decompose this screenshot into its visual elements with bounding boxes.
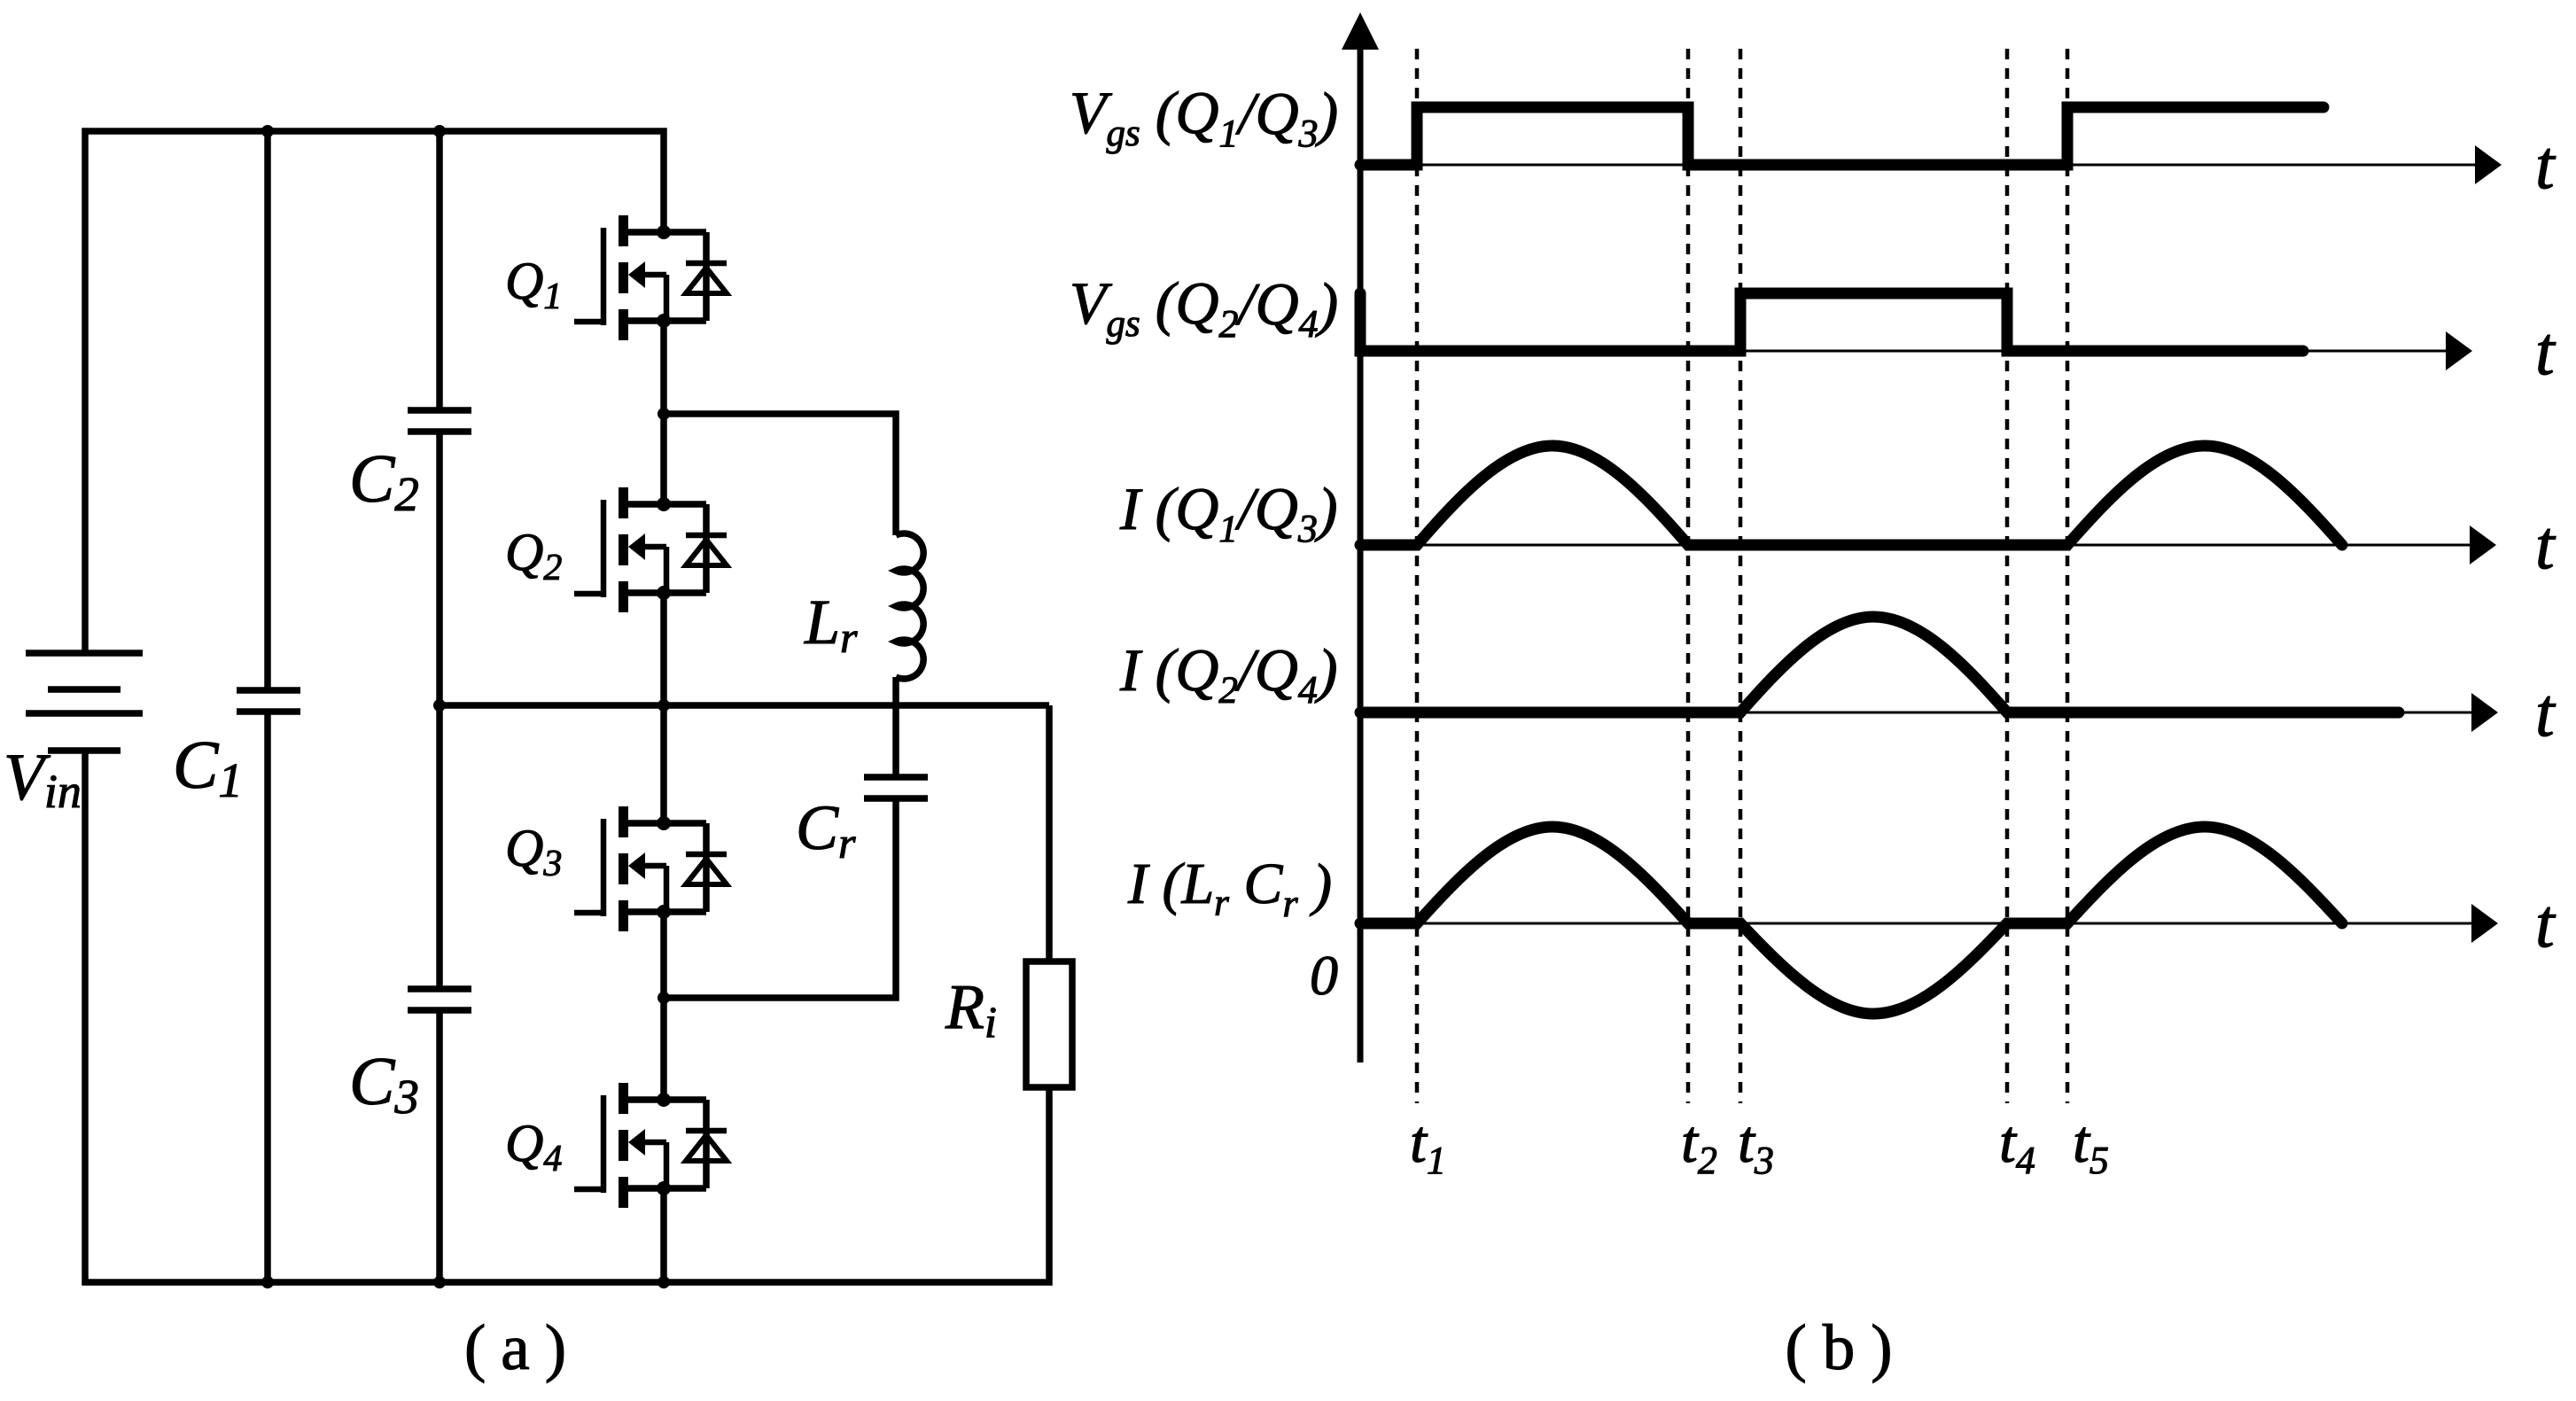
node dot bottom of C1	[261, 1276, 274, 1288]
dashed line t4	[2005, 49, 2010, 1103]
capacitor C1	[237, 690, 300, 712]
battery Vin	[26, 653, 143, 751]
wire top rail (input + to Q1 drain)	[85, 131, 664, 650]
wire C2 column upper	[436, 131, 443, 408]
wire inductor to Cr	[892, 677, 899, 778]
node dot bottom of C3	[433, 1276, 446, 1288]
wire Cr to Q3 source node	[664, 801, 896, 998]
waveform I(Lr Cr)	[1360, 827, 2342, 1014]
wire bottom rail (battery return + to resistor)	[85, 753, 1049, 1282]
axis row I(Q2/Q4)	[1360, 693, 2498, 732]
wire Q2 source through mid rail to Q3 drain	[660, 593, 667, 823]
wire C2 to mid rail	[436, 434, 443, 705]
transistor Q3	[574, 806, 727, 931]
svg-text:t: t	[2535, 673, 2557, 751]
svg-text:(a): (a)	[464, 1311, 581, 1383]
dashed line t1	[1415, 49, 1420, 1103]
svg-text:t: t	[2535, 312, 2557, 389]
node dot mid rail at Q column	[658, 699, 670, 712]
diagram vertical axis	[1342, 12, 1379, 1062]
wire C1 column upper	[264, 131, 271, 688]
resistor Ri	[1026, 961, 1072, 1087]
svg-text:t: t	[2535, 126, 2557, 203]
wire Q3 source to Q4 drain	[660, 912, 667, 1100]
node dot Cr return	[658, 992, 670, 1004]
inductor Lr	[896, 533, 923, 679]
capacitor C2	[408, 410, 471, 432]
node dot top of C1	[261, 125, 274, 137]
axis row I(Lr Cr)	[1360, 904, 2498, 943]
wire C3 to bottom rail	[436, 1013, 443, 1282]
node dot top of C2	[433, 125, 446, 137]
wire Q4 source to bottom rail	[660, 1188, 667, 1282]
dashed line t5	[2066, 49, 2070, 1103]
wire mid rail to resistor	[1046, 705, 1053, 961]
svg-text:(b): (b)	[1785, 1311, 1908, 1383]
node dot mid rail left	[433, 699, 446, 712]
transistor Q2	[574, 487, 727, 612]
wire mid rail	[440, 702, 1049, 709]
wire C1 column lower	[264, 714, 271, 1282]
transistor Q4	[574, 1083, 727, 1208]
node dot bottom of Q4	[658, 1276, 670, 1288]
wire C3 column upper	[436, 705, 443, 986]
wire node A to inductor	[664, 414, 896, 535]
svg-text:t: t	[2535, 884, 2557, 961]
svg-text:t: t	[2535, 506, 2557, 583]
waveform I(Q2/Q4)	[1360, 617, 2399, 712]
svg-text:I (Lr Cr ): I (Lr Cr )	[1127, 852, 1332, 925]
svg-text:0: 0	[1310, 944, 1338, 1007]
waveform I(Q1/Q3)	[1360, 446, 2342, 545]
wire Q1 source to Q2 drain	[660, 321, 667, 504]
axis row I(Q1/Q3)	[1360, 525, 2496, 564]
capacitor Cr	[864, 777, 928, 798]
axis row Vgs(Q2/Q4)	[1360, 331, 2472, 370]
capacitor C3	[408, 989, 471, 1010]
dashed line t3	[1739, 49, 1743, 1103]
node A dot (half-bridge midpoint)	[658, 408, 670, 420]
waveform Vgs(Q2/Q4)	[1360, 293, 2303, 351]
transistor Q1	[574, 215, 727, 340]
waveform Vgs(Q1/Q3)	[1360, 107, 2323, 165]
dashed line t2	[1686, 49, 1691, 1103]
axis row Vgs(Q1/Q3)	[1360, 145, 2502, 184]
